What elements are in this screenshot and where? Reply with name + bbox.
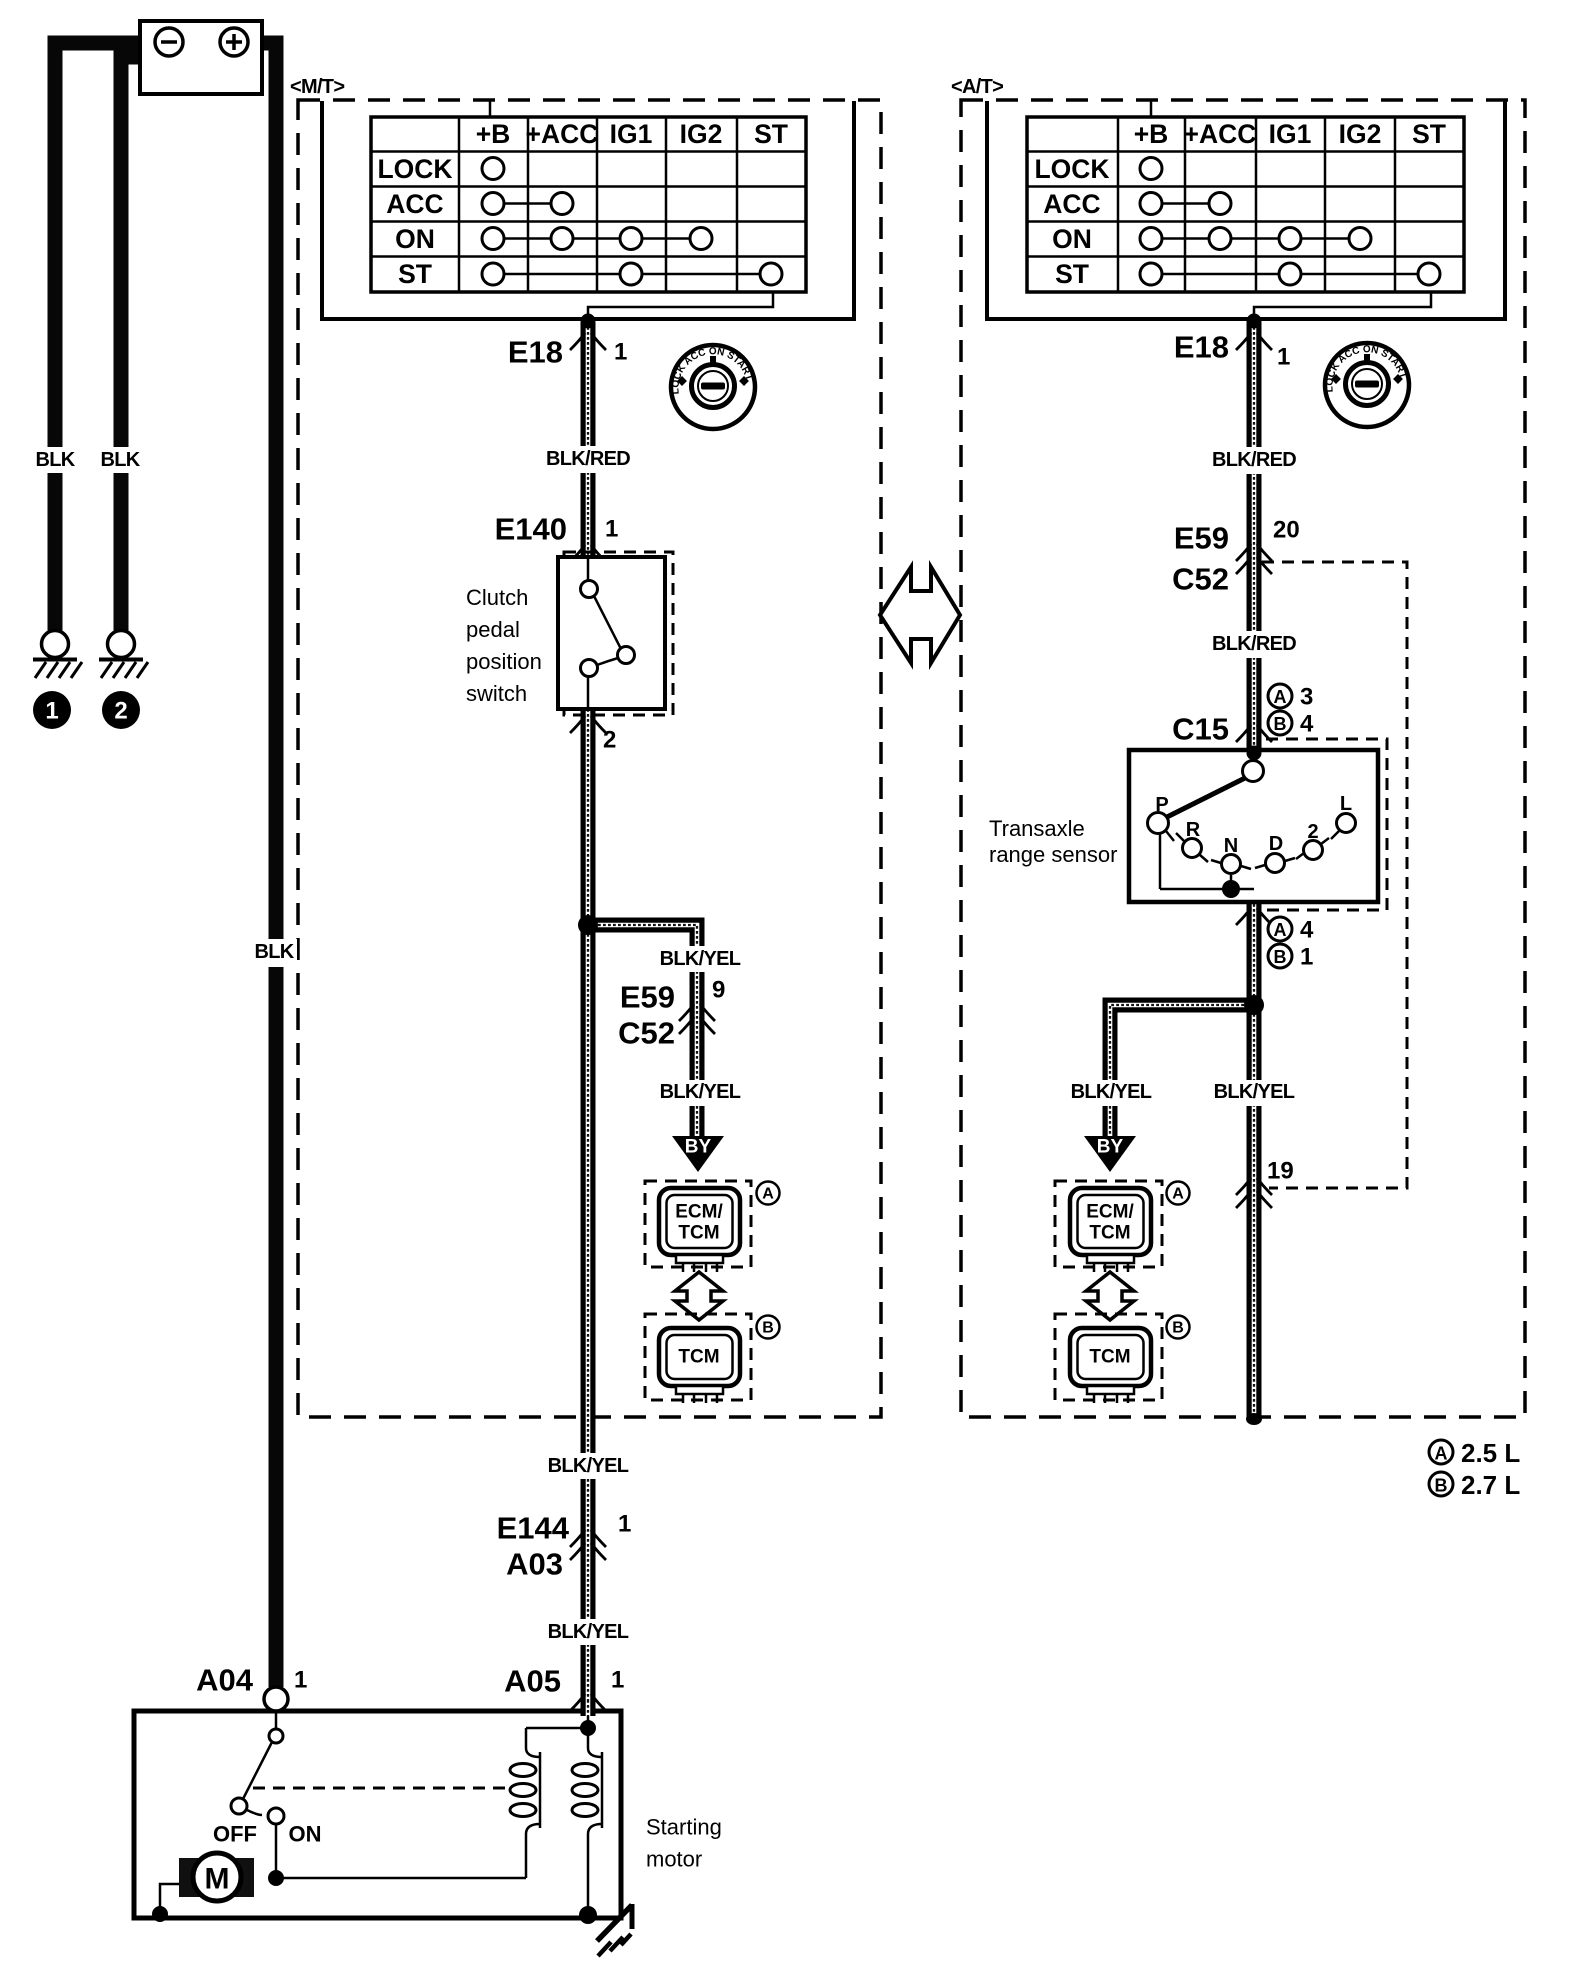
- svg-text:2: 2: [114, 698, 127, 725]
- svg-text:BY: BY: [685, 1137, 712, 1158]
- svg-text:B: B: [1274, 714, 1287, 734]
- svg-text:BLK/YEL: BLK/YEL: [1214, 1081, 1295, 1103]
- svg-text:ON: ON: [1052, 224, 1092, 254]
- svg-text:1: 1: [614, 339, 627, 366]
- svg-text:C52: C52: [618, 1016, 675, 1051]
- svg-text:ST: ST: [1055, 259, 1089, 289]
- svg-text:BLK: BLK: [100, 449, 140, 471]
- svg-text:+ACC: +ACC: [1184, 119, 1257, 149]
- svg-text:ACC: ACC: [386, 189, 443, 219]
- svg-text:B: B: [762, 1320, 774, 1337]
- svg-text:Transaxle: Transaxle: [989, 816, 1085, 841]
- svg-text:19: 19: [1267, 1158, 1294, 1185]
- svg-text:Clutch: Clutch: [466, 585, 528, 610]
- svg-text:A: A: [1172, 1186, 1184, 1203]
- svg-text:1: 1: [45, 698, 58, 725]
- svg-text:E18: E18: [508, 335, 563, 370]
- svg-text:A: A: [762, 1186, 774, 1203]
- svg-text:+ACC: +ACC: [526, 119, 599, 149]
- svg-text:C52: C52: [1172, 562, 1229, 597]
- svg-text:BLK/YEL: BLK/YEL: [660, 948, 741, 970]
- svg-text:BLK/YEL: BLK/YEL: [1071, 1081, 1152, 1103]
- svg-text:M: M: [205, 1863, 230, 1896]
- svg-text:B: B: [1274, 947, 1287, 967]
- svg-text:range sensor: range sensor: [989, 842, 1117, 867]
- svg-text:9: 9: [712, 977, 725, 1004]
- svg-text:BLK/YEL: BLK/YEL: [660, 1081, 741, 1103]
- svg-text:BLK/RED: BLK/RED: [1212, 449, 1296, 471]
- svg-text:E59: E59: [1174, 521, 1229, 556]
- svg-text:E144: E144: [497, 1511, 570, 1546]
- svg-text:BY: BY: [1097, 1137, 1124, 1158]
- svg-text:B: B: [1172, 1320, 1184, 1337]
- svg-text:C15: C15: [1172, 712, 1229, 747]
- svg-text:motor: motor: [646, 1847, 702, 1872]
- svg-text:R: R: [1186, 819, 1201, 841]
- svg-text:A04: A04: [196, 1663, 254, 1698]
- svg-text:BLK: BLK: [254, 941, 294, 963]
- svg-text:ST: ST: [398, 259, 432, 289]
- svg-text:IG2: IG2: [680, 119, 723, 149]
- svg-text:TCM: TCM: [1089, 1347, 1130, 1368]
- svg-text:1: 1: [618, 1511, 631, 1538]
- svg-text:switch: switch: [466, 681, 527, 706]
- svg-text:Starting: Starting: [646, 1815, 722, 1840]
- svg-text:A: A: [1435, 1444, 1448, 1464]
- svg-text:1: 1: [1277, 344, 1290, 371]
- svg-text:+B: +B: [476, 119, 511, 149]
- svg-text:LOCK: LOCK: [1034, 154, 1109, 184]
- svg-text:OFF: OFF: [213, 1822, 257, 1847]
- svg-text:LOCK: LOCK: [377, 154, 452, 184]
- svg-text:ST: ST: [754, 119, 788, 149]
- svg-text:BLK: BLK: [35, 449, 75, 471]
- svg-text:ECM/: ECM/: [1086, 1202, 1134, 1223]
- svg-text:TCM: TCM: [678, 1347, 719, 1368]
- svg-text:ON: ON: [395, 224, 435, 254]
- svg-text:pedal: pedal: [466, 617, 520, 642]
- svg-text:E140: E140: [495, 512, 567, 547]
- svg-text:4: 4: [1300, 917, 1314, 944]
- svg-text:2.5 L: 2.5 L: [1461, 1438, 1520, 1468]
- svg-text:N: N: [1224, 835, 1238, 857]
- svg-text:BLK/RED: BLK/RED: [546, 448, 630, 470]
- svg-text:A: A: [1274, 687, 1287, 707]
- svg-text:1: 1: [294, 1667, 307, 1694]
- svg-text:1: 1: [611, 1667, 624, 1694]
- svg-text:E59: E59: [620, 980, 675, 1015]
- svg-text:BLK/RED: BLK/RED: [1212, 633, 1296, 655]
- svg-text:ECM/: ECM/: [675, 1202, 723, 1223]
- svg-text:<A/T>: <A/T>: [951, 76, 1003, 98]
- svg-text:TCM: TCM: [1089, 1223, 1130, 1244]
- svg-text:IG2: IG2: [1339, 119, 1382, 149]
- svg-text:D: D: [1269, 833, 1283, 855]
- svg-text:2: 2: [1307, 821, 1318, 843]
- svg-text:2.7 L: 2.7 L: [1461, 1470, 1520, 1500]
- svg-text:E18: E18: [1174, 330, 1229, 365]
- svg-text:ACC: ACC: [1043, 189, 1100, 219]
- svg-text:A05: A05: [504, 1664, 561, 1699]
- svg-text:IG1: IG1: [1269, 119, 1312, 149]
- svg-text:ON: ON: [289, 1822, 322, 1847]
- svg-text:A: A: [1274, 920, 1287, 940]
- svg-text:TCM: TCM: [678, 1223, 719, 1244]
- svg-text:4: 4: [1300, 711, 1314, 738]
- svg-text:1: 1: [1300, 944, 1313, 971]
- svg-text:IG1: IG1: [610, 119, 653, 149]
- svg-text:A03: A03: [506, 1547, 563, 1582]
- svg-text:ST: ST: [1412, 119, 1446, 149]
- svg-text:+B: +B: [1134, 119, 1169, 149]
- svg-text:BLK/YEL: BLK/YEL: [548, 1455, 629, 1477]
- svg-text:position: position: [466, 649, 542, 674]
- svg-text:L: L: [1340, 793, 1352, 815]
- svg-text:1: 1: [605, 516, 618, 543]
- svg-text:BLK/YEL: BLK/YEL: [548, 1621, 629, 1643]
- svg-text:20: 20: [1273, 517, 1300, 544]
- svg-text:B: B: [1435, 1476, 1448, 1496]
- svg-text:2: 2: [603, 727, 616, 754]
- svg-text:3: 3: [1300, 684, 1313, 711]
- svg-text:<M/T>: <M/T>: [290, 76, 344, 98]
- svg-text:P: P: [1155, 794, 1168, 816]
